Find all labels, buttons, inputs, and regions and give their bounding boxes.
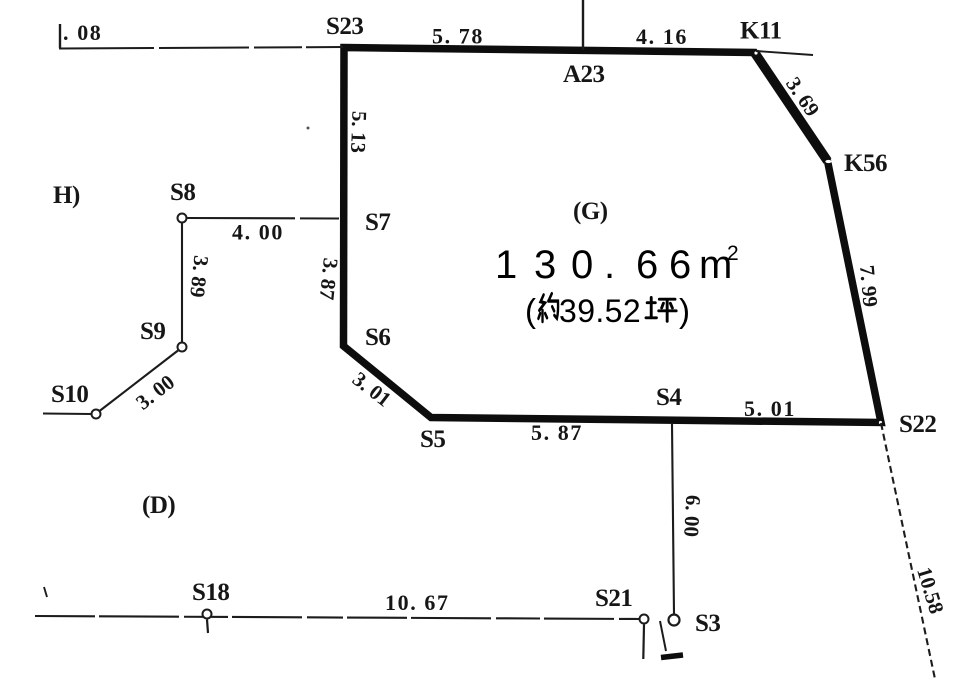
svg-text:S9: S9 [140,318,165,345]
vertex dot K56 [825,160,831,163]
svg-text:S5: S5 [420,426,445,453]
svg-text:7. 99: 7. 99 [855,264,883,308]
svg-text:3. 89: 3. 89 [185,254,213,298]
wire S9 to S10 [100,351,179,412]
wire S10 tail [43,412,91,415]
parcel boundary (thick) S23-K11-K56-S22-S5-S6 [344,48,882,423]
kanji yaku [538,294,558,322]
wire below S3 [660,621,666,651]
wire road line bottom [35,616,639,619]
svg-text:S18: S18 [192,579,229,606]
svg-text:(: ( [525,292,536,329]
svg-text:S7: S7 [365,209,390,236]
boundary edge K11-K56 (heavier) [755,53,828,162]
svg-text:39.52: 39.52 [559,293,641,329]
svg-text:): ) [679,292,690,329]
wire S8 to S9 [181,223,183,342]
svg-text:5. 13: 5. 13 [346,111,371,154]
svg-text:4. 16: 4. 16 [636,24,688,49]
svg-text:5. 87: 5. 87 [531,420,583,445]
point S3 [669,615,680,626]
svg-text:S3: S3 [695,610,720,637]
svg-text:K56: K56 [844,150,887,177]
wire S4 to S3 [672,424,674,615]
wire: road line left of S23 [59,47,343,49]
wire below S21 [642,625,645,660]
point S21 [640,615,649,624]
svg-text:(G): (G) [573,198,608,225]
svg-text:S23: S23 [326,13,363,40]
svg-text:(D): (D) [142,492,175,519]
vertex dot S22 [879,421,882,424]
vertex dot K11 [754,51,757,54]
speck [307,127,310,130]
tick at 08 label [59,24,61,48]
wire S22 extension [881,423,935,679]
wire: tick right of K11 [756,51,813,55]
svg-text:. 08: . 08 [63,20,102,45]
svg-text:6. 00: 6. 00 [679,494,705,537]
svg-text:2: 2 [727,242,739,265]
svg-text:K11: K11 [740,18,782,45]
svg-text:S22: S22 [899,411,936,438]
wire: vertical line above A23 [582,0,584,50]
svg-text:S4: S4 [656,384,682,411]
svg-text:4. 00: 4. 00 [232,220,284,245]
tick below S18 [207,620,208,634]
svg-text:10. 67: 10. 67 [385,590,450,615]
point S9 [178,343,187,352]
svg-text:5. 78: 5. 78 [432,24,484,49]
svg-text:3. 87: 3. 87 [315,257,343,301]
point S10 [92,410,101,419]
point S8 [178,214,187,223]
thick mark bottom [661,655,683,658]
wire S8 to S7 [187,217,339,220]
kanji tsubo [646,297,676,321]
tick above road start [44,587,47,597]
svg-text:H): H) [53,182,80,209]
svg-text:A23: A23 [563,61,605,88]
svg-text:S21: S21 [595,585,632,612]
point S18 [203,610,212,619]
svg-text:S10: S10 [51,381,88,408]
svg-text:S6: S6 [365,324,390,351]
svg-text:S8: S8 [170,179,195,206]
svg-text:5. 01: 5. 01 [744,396,796,421]
